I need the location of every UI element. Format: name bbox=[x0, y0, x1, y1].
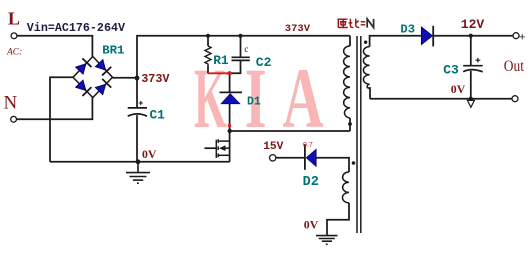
wire bridge right to 373V node bbox=[113, 77, 138, 79]
terminal 0V out bbox=[512, 96, 518, 102]
wire drain to primary bbox=[230, 130, 350, 132]
ground main bbox=[126, 162, 150, 183]
junction C3 bottom on 0V rail bbox=[469, 97, 473, 101]
terminal N bbox=[11, 116, 17, 122]
wire 0V rail bbox=[50, 161, 230, 163]
wire red R1 bottom to D1 node bbox=[208, 72, 231, 74]
svg-text:c: c bbox=[244, 44, 248, 54]
bridge diode bottom-left bbox=[75, 79, 92, 96]
junction drain node bbox=[228, 129, 232, 133]
resistor R1 bbox=[205, 46, 211, 66]
svg-text:D1: D1 bbox=[247, 96, 261, 109]
svg-text:373V: 373V bbox=[285, 23, 311, 35]
svg-text:0V: 0V bbox=[142, 147, 157, 161]
diode D3 bbox=[421, 27, 432, 45]
svg-text:BR1: BR1 bbox=[102, 43, 124, 57]
bridge diode bottom-right bbox=[95, 79, 112, 96]
wire L terminal to bridge top bbox=[17, 36, 92, 57]
wire C2 leads bbox=[240, 36, 242, 58]
ground aux bbox=[316, 236, 338, 245]
svg-text:AC:: AC: bbox=[6, 48, 22, 58]
svg-text:Vin=AC176-264V: Vin=AC176-264V bbox=[27, 21, 125, 35]
wire N terminal to bridge bottom bbox=[16, 98, 92, 120]
junction C3 top on 12V rail bbox=[469, 34, 473, 38]
bridge BR1 diamond bbox=[73, 57, 113, 98]
svg-text:N: N bbox=[4, 93, 18, 114]
secondary winding bbox=[363, 47, 369, 88]
svg-text:D3: D3 bbox=[400, 22, 415, 36]
wire 15V terminal to D2 bbox=[276, 157, 305, 159]
bridge diode top-right bbox=[94, 59, 111, 76]
terminal +12V out bbox=[513, 33, 519, 39]
junction C2 top on 373V rail bbox=[238, 34, 242, 38]
terminal L bbox=[11, 33, 17, 39]
primary polarity dot bbox=[348, 122, 352, 126]
wire 373V rail bbox=[137, 36, 350, 108]
wire D1 branch bbox=[229, 73, 231, 92]
svg-text:C1: C1 bbox=[150, 108, 166, 123]
wire bridge left to 0V rail bbox=[50, 77, 73, 162]
bridge diode top-left bbox=[75, 58, 92, 75]
wire C1 bottom to 0V bbox=[136, 115, 138, 162]
svg-text:0.7: 0.7 bbox=[303, 142, 313, 149]
capacitor C1 bbox=[128, 108, 147, 116]
junction R1 top on 373V rail bbox=[206, 34, 210, 38]
svg-text:15V: 15V bbox=[263, 141, 283, 153]
junction node 373V bbox=[135, 76, 140, 81]
svg-text:Out: Out bbox=[504, 58, 525, 75]
svg-text:R1: R1 bbox=[213, 53, 229, 68]
svg-text:373V: 373V bbox=[141, 72, 170, 86]
diode D2 bbox=[306, 149, 316, 166]
svg-text:0V: 0V bbox=[451, 82, 466, 96]
wire D2 to aux winding bbox=[316, 158, 349, 172]
wire secondary bottom lead bbox=[368, 88, 371, 99]
output 0V marker triangle bbox=[467, 100, 474, 107]
wire primary top lead bbox=[349, 36, 351, 46]
KIA watermark bbox=[194, 50, 324, 146]
svg-text:D2: D2 bbox=[303, 175, 319, 190]
wire 12V bottom rail bbox=[370, 98, 512, 100]
wire primary bottom lead bbox=[349, 118, 351, 131]
secondary polarity dot bbox=[364, 41, 367, 44]
wire aux bottom lead to ground bbox=[327, 203, 349, 235]
red junction dot above drain bbox=[228, 124, 231, 127]
primary winding bbox=[344, 46, 350, 118]
capacitor C2 bbox=[232, 57, 250, 60]
svg-text:0V: 0V bbox=[304, 217, 319, 231]
aux winding bbox=[342, 172, 349, 203]
C3 plus bbox=[476, 58, 481, 63]
wire secondary top to D3 bbox=[370, 36, 421, 47]
terminal 15V bbox=[270, 155, 276, 161]
svg-text:12V: 12V bbox=[461, 17, 485, 32]
svg-text:C3: C3 bbox=[443, 63, 459, 78]
transformer core bbox=[356, 36, 358, 233]
red junction dot bbox=[227, 71, 231, 75]
junction node 0V bbox=[136, 159, 141, 164]
label turns ratio 匝比=N bbox=[337, 19, 359, 28]
MOSFET Q1 switch bbox=[216, 139, 229, 158]
C1 plus bbox=[139, 101, 143, 105]
label N of turns ratio bbox=[367, 19, 373, 28]
wire gate stub bbox=[205, 147, 217, 149]
svg-text:+: + bbox=[519, 32, 525, 44]
zener diode D1 bbox=[220, 91, 243, 93]
svg-text:C2: C2 bbox=[256, 55, 272, 70]
svg-text:L: L bbox=[8, 9, 20, 29]
aux polarity dot bbox=[352, 161, 356, 165]
capacitor C3 bbox=[463, 66, 483, 72]
wire D3 to +12V terminal bbox=[433, 35, 513, 37]
wire C3 leads bbox=[470, 36, 472, 66]
wire R1 leads bbox=[207, 36, 209, 46]
